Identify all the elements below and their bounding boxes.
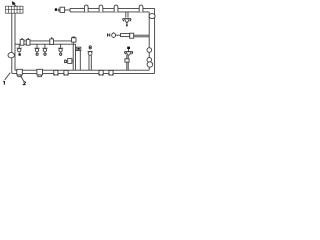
pump P3 right [147,48,152,53]
trap T2 [37,69,43,76]
valve V3 [42,44,47,53]
trap T1 [17,69,23,76]
label B (valve V1) [19,53,21,55]
duct top run [70,8,155,12]
wire nozzle N2 drop [127,55,128,70]
duct union hump 1 [84,5,88,12]
union box F1 [20,39,24,46]
pump P4 right [147,58,152,63]
pump P6 [112,32,116,38]
duct union hump 4 [139,5,143,12]
valve box V7 [130,33,134,38]
valve V2 [34,44,39,53]
trap T5 [99,70,104,75]
pump P5 bottom right [147,62,153,67]
trap T4 [64,70,69,75]
valve V5 [88,51,93,55]
wire to duct [65,9,70,11]
union box F2 [26,39,30,46]
flow arrow [12,1,16,6]
cylinder CYL1 [121,34,130,37]
wire left riser [12,13,15,73]
wire drop to D valve [73,44,75,70]
duct union hump 3 [114,5,118,12]
feed valve V6 [60,7,65,12]
label 2 [23,82,25,85]
duct union hump 2 [99,5,103,12]
label B (valve V5) [89,46,91,49]
wire [116,34,121,36]
union box F3 [50,38,54,45]
pump P2 top right [149,14,155,19]
wire stub [58,9,60,11]
gauge G1 [76,47,81,50]
label C (valve V4) [60,53,62,55]
trap T6 [109,70,114,75]
wire nozzle drop [126,12,128,18]
trap T3 [54,70,59,75]
label H [107,33,109,36]
wire manifold [15,43,76,45]
wire manifold upper [20,40,72,42]
label C (valve V3) [44,53,46,55]
right duct downcomer [149,8,154,73]
valve V1 [17,44,22,53]
condenser grid E1 [6,6,24,13]
union box F4 at manifold corner [72,37,77,44]
leader line 2 [21,76,24,82]
bottom duct run [12,70,155,73]
label 1 [3,81,4,85]
wire stub to gauge [75,48,78,50]
spray nozzle N2 [124,52,133,55]
flange tick [58,8,60,11]
label a (feed valve) [55,8,57,11]
pump P1 on left riser [8,53,14,58]
label box above nozzle N2 [127,47,130,49]
wire tick D box to pipe [72,60,73,62]
leader line 1 [5,73,10,80]
valve D box [68,59,72,64]
union box on N2 drop [125,59,129,62]
wire drop from gauge [79,51,81,71]
label C (valve V2) [36,53,38,55]
label D [65,60,67,63]
wire drop from valve V5 [89,55,91,70]
wire double run to right duct [134,35,150,37]
valve V4 [58,44,63,53]
spray nozzle N1 [123,19,132,27]
